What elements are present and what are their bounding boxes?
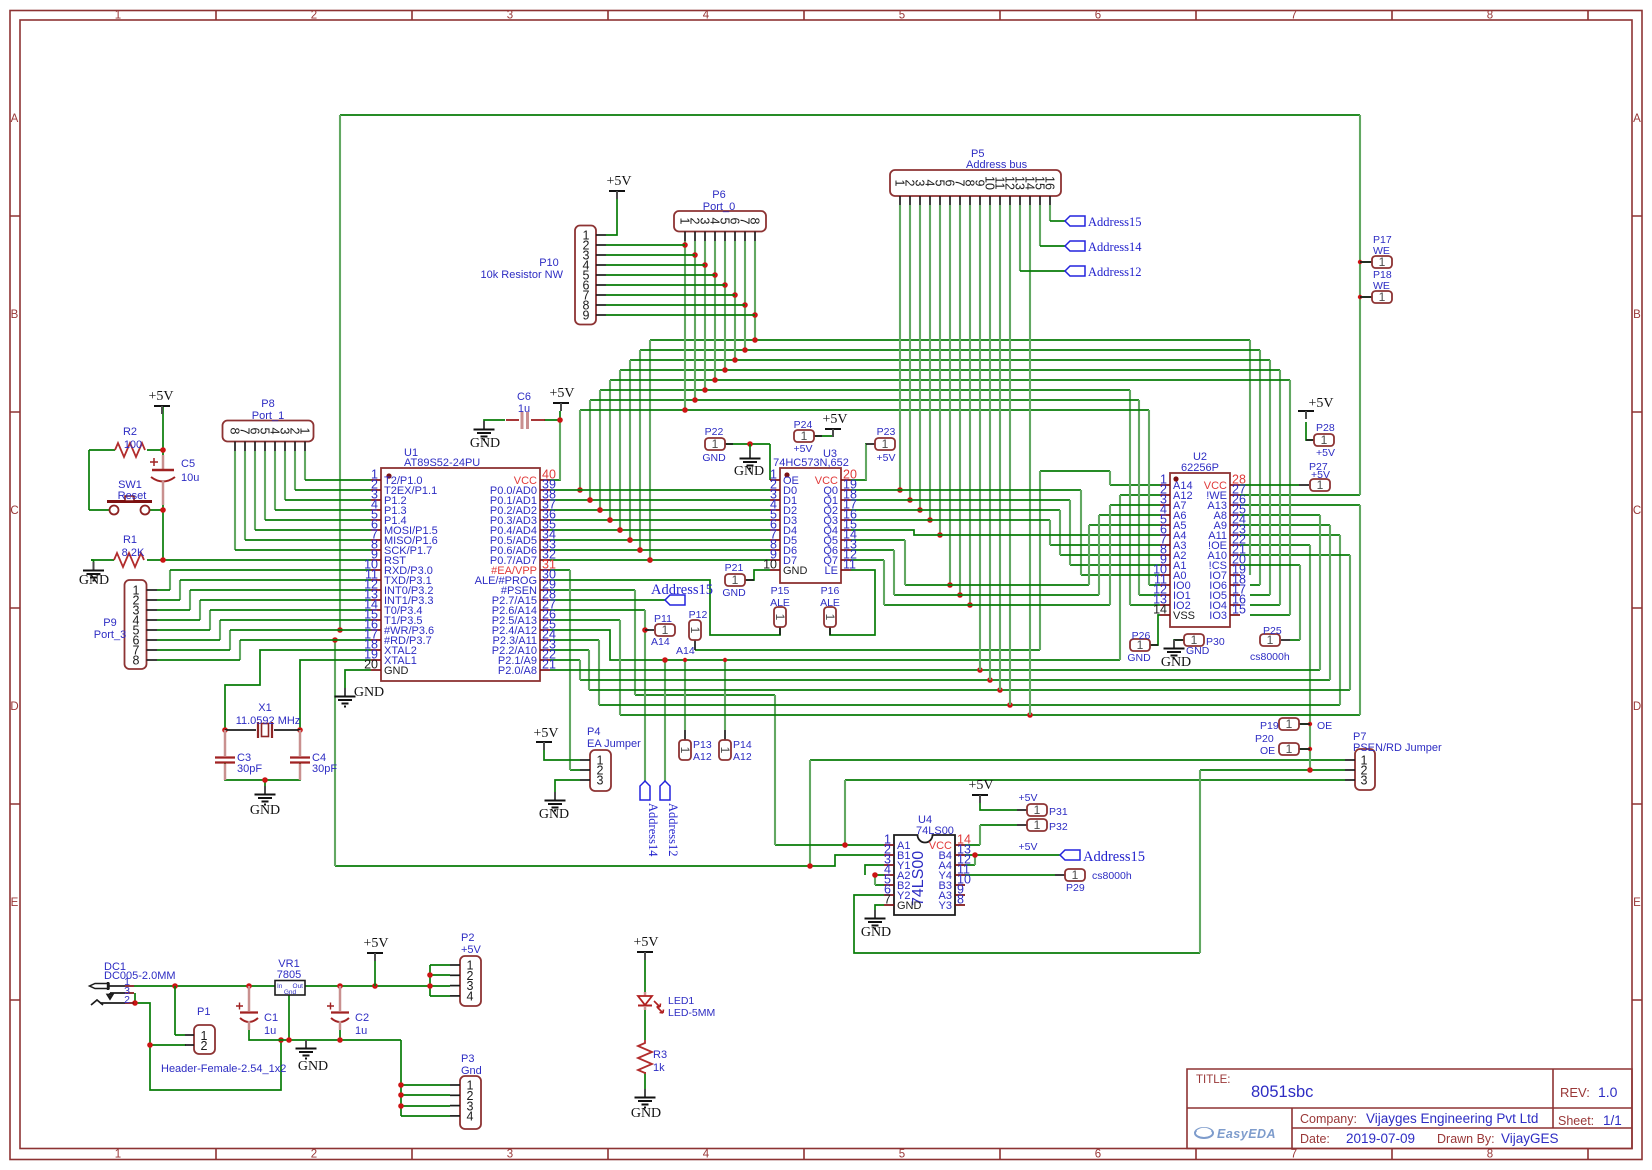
ground GND (P22) [749, 444, 751, 450]
svg-text:1: 1 [1286, 742, 1293, 756]
junction WE [337, 627, 343, 633]
wire U3 OE/P22 GND [725, 444, 770, 480]
connector P30 GND [1174, 633, 1225, 657]
connector P19 OE [1260, 717, 1332, 732]
svg-text:1/1: 1/1 [1603, 1113, 1622, 1128]
wire ground rail [249, 995, 401, 1040]
svg-text:GND: GND [897, 900, 922, 912]
svg-text:5: 5 [899, 10, 905, 22]
svg-text:P28: P28 [1316, 422, 1335, 434]
wire A9 net (U1 P2.1 / P5 pin10 / U2 A9) [550, 525, 1330, 680]
svg-text:4: 4 [467, 989, 474, 1003]
svg-text:1: 1 [115, 1149, 121, 1161]
connector P4 EA Jumper [580, 726, 641, 791]
svg-text:ALE: ALE [820, 597, 840, 609]
svg-text:Company:: Company: [1300, 1112, 1357, 1126]
svg-text:Y3: Y3 [939, 900, 952, 912]
svg-text:P23: P23 [877, 426, 896, 438]
svg-text:4: 4 [703, 10, 710, 22]
svg-text:GND: GND [250, 803, 280, 818]
svg-text:C1: C1 [264, 1012, 278, 1024]
wire LE net (U3 LE to P16) [830, 570, 875, 635]
svg-text:62256P: 62256P [1181, 462, 1219, 474]
svg-text:8051sbc: 8051sbc [1251, 1083, 1313, 1101]
connector P31 +5V [1017, 792, 1068, 818]
svg-text:E: E [11, 897, 19, 909]
svg-text:3: 3 [507, 10, 513, 22]
header P8 Port_1 [223, 398, 314, 451]
wire LED net [644, 960, 646, 1089]
svg-text:GND: GND [79, 573, 109, 588]
svg-text:8: 8 [1487, 10, 1493, 22]
svg-text:Address12: Address12 [666, 803, 680, 856]
connector P32 +5V [1017, 818, 1068, 853]
connector P7 PSEN/RD Jumper [1345, 731, 1442, 790]
svg-text:LE: LE [825, 565, 838, 577]
svg-text:1: 1 [1072, 868, 1079, 882]
svg-text:E: E [1633, 897, 1641, 909]
svg-text:Port_1: Port_1 [252, 410, 284, 422]
svg-text:8: 8 [957, 893, 964, 907]
svg-text:P9: P9 [103, 617, 116, 629]
wire A15 net (U1 P2.7 to Address15 flag) [550, 599, 665, 601]
header P6 Port_0 [674, 189, 766, 241]
svg-text:7805: 7805 [277, 969, 301, 981]
connector P25 cs8000h [1250, 625, 1290, 663]
wire AD3 net bus row [610, 380, 1290, 615]
wire AD0 net bus row [580, 410, 1160, 585]
svg-text:1.0: 1.0 [1598, 1084, 1618, 1100]
svg-text:P15: P15 [771, 585, 790, 597]
ground GND (P4) [554, 792, 556, 800]
wire crystal caps to GND [225, 763, 300, 786]
wire RST net (R1/R2/C5/SW1 to U1 RST) [89, 405, 371, 560]
DC jack DC1 DC005-2.0MM [90, 961, 176, 1006]
ground GND (P30) [1173, 640, 1175, 648]
svg-text:1: 1 [1034, 818, 1041, 832]
svg-text:P25: P25 [1263, 625, 1282, 637]
svg-text:+5V: +5V [1316, 447, 1335, 459]
net flag Address14 (P5) [1065, 241, 1085, 251]
svg-text:6: 6 [1095, 1149, 1101, 1161]
svg-text:1: 1 [718, 747, 732, 754]
wire OE net (U4 Y2 to P7 pin2 / P19 / P20 / U2 !OE) [854, 545, 1345, 953]
capacitor C3 [215, 730, 262, 780]
svg-text:P13: P13 [693, 739, 712, 751]
ground GND (rail) [305, 1040, 307, 1048]
wire P2 +5V symbol [374, 960, 376, 986]
svg-text:1: 1 [115, 10, 121, 22]
svg-text:14: 14 [1153, 603, 1167, 617]
svg-text:GND: GND [539, 807, 569, 822]
svg-text:Header-Female-2.54_1x2: Header-Female-2.54_1x2 [161, 1063, 286, 1075]
svg-text:P19: P19 [1260, 720, 1279, 732]
junction A13/P5 [1027, 712, 1033, 718]
wire AD2 net bus row [600, 390, 1160, 605]
svg-text:P16: P16 [821, 585, 840, 597]
ground GND (R1) [93, 562, 95, 570]
net flag Address14 (bottom) [640, 781, 650, 800]
svg-text:20: 20 [364, 658, 378, 672]
net flag Address15 (U4) [1060, 849, 1145, 865]
wire DC1 gnd loop / P1 pin2 [135, 993, 281, 1090]
wire P1 pin1 riser [175, 986, 185, 1035]
svg-text:+5V: +5V [1311, 469, 1330, 481]
net flag Address15 (P5) [1065, 216, 1085, 226]
wire P10 pullup rows to P6 verticals [606, 245, 755, 315]
svg-text:P26: P26 [1132, 630, 1151, 642]
svg-text:9: 9 [583, 309, 590, 323]
svg-text:Address12: Address12 [1088, 265, 1141, 279]
wire A8 net (U1 P2.0 / P5 pin9 / U2 A8) [550, 515, 1320, 670]
svg-text:C6: C6 [517, 391, 531, 403]
svg-text:Drawn By:: Drawn By: [1437, 1132, 1495, 1146]
svg-text:P11: P11 [654, 613, 672, 625]
ground GND (R3) [644, 1089, 646, 1097]
capacitor C2 [327, 986, 369, 1037]
wire A2 net [851, 510, 1160, 555]
svg-text:1: 1 [882, 437, 889, 451]
svg-text:C2: C2 [355, 1012, 369, 1024]
svg-text:P4: P4 [587, 726, 600, 738]
svg-text:GND: GND [384, 665, 409, 677]
connector P1 Header-Female [161, 1006, 286, 1075]
net flag Address12 (P5) [1065, 266, 1085, 276]
svg-text:+5V: +5V [968, 778, 993, 793]
svg-text:+5V: +5V [148, 389, 173, 404]
svg-text:2: 2 [311, 1149, 317, 1161]
wire AD rows U1 P0 to U3 D [550, 490, 770, 560]
wire P28 +5V [1306, 422, 1314, 440]
svg-text:A: A [1633, 113, 1641, 125]
svg-text:VijayGES: VijayGES [1501, 1131, 1559, 1146]
wire A11 net (U1 P2.3 / P5 pin12 / U2 A11) [550, 535, 1340, 705]
svg-text:1u: 1u [518, 403, 530, 415]
EasyEDA logo [1195, 1127, 1276, 1141]
svg-text:1u: 1u [264, 1025, 276, 1037]
connector P24 +5V [794, 419, 822, 455]
svg-text:Date:: Date: [1300, 1132, 1330, 1146]
svg-text:EA Jumper: EA Jumper [587, 738, 641, 750]
IC U4 74LS00 [884, 814, 971, 915]
svg-text:WE: WE [1373, 245, 1390, 257]
wire A12 net (U1 P2.4 / Address12 flag / P13 / P14 / U2 A12) [550, 495, 1160, 660]
svg-text:P12: P12 [689, 609, 708, 621]
svg-text:GND: GND [783, 565, 808, 577]
connector P12 A14 [676, 609, 707, 657]
svg-text:P29: P29 [1066, 882, 1085, 894]
wire XTAL1 to X1 [300, 660, 371, 730]
connector P26 GND [1127, 630, 1158, 664]
svg-text:A: A [11, 113, 19, 125]
svg-text:2: 2 [201, 1039, 208, 1053]
svg-text:P3: P3 [461, 1053, 474, 1065]
svg-text:16: 16 [1043, 176, 1057, 190]
wire P4 +5V [544, 750, 580, 760]
svg-text:Address14: Address14 [1088, 240, 1142, 254]
capacitor C4 [290, 730, 337, 780]
wire P4 pin3 GND [555, 780, 580, 792]
svg-text:2: 2 [124, 994, 130, 1006]
svg-text:GND: GND [734, 464, 764, 479]
header P3 Gnd [450, 1053, 482, 1129]
svg-text:OE: OE [1260, 745, 1275, 757]
wire P5 header verticals pins1-12,14 [899, 205, 901, 490]
svg-text:10: 10 [763, 558, 777, 572]
svg-text:REV:: REV: [1560, 1085, 1590, 1100]
wire RD net (U1 #RD to U4 B1 / P7 pin1) [335, 760, 1345, 866]
svg-text:21: 21 [542, 658, 556, 672]
capacitor C5 [150, 455, 199, 505]
svg-text:GND: GND [861, 925, 891, 940]
wire P9 to U1 port3 staircase [169, 570, 171, 590]
svg-text:IO3: IO3 [1209, 610, 1227, 622]
svg-text:GND: GND [631, 1106, 661, 1121]
connector P23 +5V [866, 426, 895, 464]
connector P15 ALE [770, 585, 790, 635]
junction AD rows staircase [587, 497, 593, 503]
svg-text:A12: A12 [733, 751, 752, 763]
connector P22 GND [702, 426, 733, 464]
wire P31 +5V [980, 803, 1017, 810]
wire U4 VCC to P32 [965, 825, 1017, 845]
svg-text:+5V: +5V [461, 944, 482, 956]
wire ALE net (U1 ALE to P15) [550, 580, 780, 635]
svg-text:1: 1 [688, 627, 702, 634]
svg-text:B: B [11, 309, 19, 321]
svg-text:1: 1 [1379, 255, 1386, 269]
svg-text:P31: P31 [1049, 806, 1068, 818]
svg-text:+5V: +5V [606, 174, 631, 189]
svg-text:1: 1 [1286, 717, 1293, 731]
connector P20 OE [1255, 733, 1310, 757]
svg-text:2019-07-09: 2019-07-09 [1346, 1131, 1415, 1146]
svg-text:+5V: +5V [822, 412, 847, 427]
switch SW1 Reset [107, 479, 152, 515]
wire A1 net [851, 500, 1160, 565]
wire A0 net (U3 Q0 row to U2 A0) [851, 490, 1160, 575]
wire A3 net [851, 520, 1160, 545]
svg-text:DC005-2.0MM: DC005-2.0MM [104, 970, 176, 982]
svg-text:30pF: 30pF [312, 763, 337, 775]
svg-text:P2.0/A8: P2.0/A8 [498, 665, 537, 677]
junction A14/P11 [642, 627, 648, 633]
junction PSEN/U4 A1 [842, 842, 848, 848]
ground GND (U4 pin7) [874, 910, 876, 918]
ground GND (U1 pin20) [344, 688, 346, 696]
svg-text:74HC573N,652: 74HC573N,652 [773, 457, 849, 469]
svg-text:+5V: +5V [877, 452, 896, 464]
connector P27 +5V [1299, 461, 1330, 492]
ground GND (crystal) [264, 786, 266, 794]
svg-text:30pF: 30pF [237, 763, 262, 775]
svg-text:Address15: Address15 [651, 582, 713, 598]
svg-text:LED-5MM: LED-5MM [668, 1007, 715, 1019]
svg-text:Address bus: Address bus [966, 159, 1028, 171]
wire P8 to U1 port1 staircase [304, 451, 306, 480]
wire AD1 net bus row [590, 400, 1160, 595]
svg-text:cs8000h: cs8000h [1250, 651, 1290, 663]
wire P10 pin1 to +5V [606, 197, 617, 235]
svg-text:GND: GND [1161, 655, 1191, 670]
svg-text:3: 3 [507, 1149, 513, 1161]
wire R1 to GND [91, 560, 94, 562]
wire P5 pin16 to Address15 flag [1049, 205, 1051, 221]
svg-text:1: 1 [298, 428, 312, 435]
resistor R3 [638, 1040, 667, 1074]
svg-text:P22: P22 [705, 426, 724, 438]
wire WE net (U1 #WR to P17/P18 to U2 !WE) [340, 115, 1372, 495]
svg-text:8: 8 [748, 218, 762, 225]
capacitor C1 [236, 986, 278, 1037]
svg-text:R1: R1 [123, 534, 137, 546]
svg-text:6: 6 [1095, 10, 1101, 22]
svg-text:D: D [10, 701, 18, 713]
wire A14 net (U1 P2.6 / P11 / Address14 flag / P12 / U2 A14) [550, 471, 1160, 650]
svg-text:10u: 10u [181, 472, 199, 484]
svg-text:P6: P6 [712, 189, 725, 201]
IC U2 62256P [1153, 451, 1246, 627]
wire A10 net (U1 P2.2 / P5 pin11 / U2 A10) [550, 555, 1350, 690]
wire U1 GND pin20 [345, 670, 371, 688]
svg-text:C: C [1633, 505, 1641, 517]
svg-text:Gnd: Gnd [284, 989, 297, 996]
svg-text:A14: A14 [651, 636, 670, 648]
svg-text:C: C [10, 505, 18, 517]
svg-text:1: 1 [712, 437, 719, 451]
connector P16 ALE [820, 585, 840, 635]
svg-text:PSEN/RD Jumper: PSEN/RD Jumper [1353, 742, 1442, 754]
svg-text:Port_0: Port_0 [703, 201, 735, 213]
wire U2 VCC to P27 [1240, 484, 1299, 486]
svg-text:1: 1 [773, 614, 787, 621]
wire EA net (U1 #EA to P4 pin2) [550, 570, 580, 770]
svg-text:7: 7 [1291, 1149, 1297, 1161]
svg-text:VSS: VSS [1173, 610, 1195, 622]
svg-text:P20: P20 [1255, 733, 1274, 745]
svg-text:5: 5 [899, 1149, 905, 1161]
svg-text:P14: P14 [733, 739, 752, 751]
wire P30 GND [1174, 640, 1184, 644]
IC U1 AT89S52-24PU [364, 447, 556, 681]
svg-text:OE: OE [1317, 720, 1332, 732]
svg-text:cs8000h: cs8000h [1092, 870, 1132, 882]
svg-text:+5V: +5V [1308, 396, 1333, 411]
junction P5 pins 1-5 on Q rows [897, 487, 903, 493]
svg-text:X1: X1 [258, 702, 271, 714]
svg-text:1: 1 [1379, 290, 1386, 304]
net flag Address12 (bottom) [660, 781, 670, 800]
junction RD [332, 637, 338, 643]
wire U4 Y1 to A2/B2 [865, 865, 884, 885]
svg-text:2: 2 [311, 10, 317, 22]
svg-text:P21: P21 [725, 562, 744, 574]
header P5 Address bus [890, 148, 1061, 205]
wire A4 net (Q4 jog) [851, 530, 1160, 535]
svg-text:+5V: +5V [549, 386, 574, 401]
wire U4 GND [875, 905, 884, 910]
svg-text:Sheet:: Sheet: [1558, 1114, 1594, 1128]
svg-text:74LS00: 74LS00 [916, 825, 954, 837]
IC U3 74HC573N,652 [763, 448, 857, 583]
svg-text:1k: 1k [653, 1062, 665, 1074]
wire P5 pin13 to Address12 flag [1019, 205, 1021, 271]
wire A5 net (Q5 to U2 A5) [851, 525, 1160, 585]
wire A7 net (Q7 to U2 A7) [851, 505, 1160, 605]
svg-text:P10: P10 [539, 257, 559, 269]
crystal X1 [225, 702, 300, 738]
svg-text:AT89S52-24PU: AT89S52-24PU [404, 457, 480, 469]
header P2 +5V [450, 932, 482, 1006]
svg-text:GND: GND [722, 587, 746, 599]
svg-text:ALE: ALE [770, 597, 790, 609]
wire P24 +5V [814, 429, 833, 436]
svg-text:R2: R2 [123, 426, 137, 438]
svg-text:8: 8 [133, 654, 140, 668]
svg-text:GND: GND [470, 436, 500, 451]
svg-text:+5V: +5V [633, 935, 658, 950]
ground GND (C6) [483, 421, 485, 429]
svg-text:Port_3: Port_3 [94, 629, 126, 641]
svg-text:A14: A14 [676, 645, 695, 657]
junction P5 pins 6-8 [947, 582, 953, 588]
wire P5 pin15 to Address14 flag [1039, 205, 1041, 246]
connector P13 A12 [678, 730, 712, 763]
svg-text:Gnd: Gnd [461, 1065, 482, 1077]
header P10 10k Resistor NW [480, 226, 606, 325]
svg-text:+5V: +5V [363, 936, 388, 951]
wire U3 GND to P21 [745, 570, 770, 580]
svg-text:D: D [1633, 701, 1641, 713]
connector P11 A14 [645, 613, 675, 648]
svg-text:10k Resistor NW: 10k Resistor NW [480, 269, 563, 281]
regulator VR1 7805 [275, 958, 305, 996]
svg-text:1u: 1u [355, 1025, 367, 1037]
svg-text:GND: GND [702, 452, 726, 464]
svg-text:Address15: Address15 [1088, 215, 1141, 229]
wire CS net (U2 !CS to P25) [1240, 565, 1300, 640]
connector P14 A12 [718, 730, 752, 763]
wire A6 net (Q6 to U2 A6) [851, 515, 1160, 595]
svg-text:1: 1 [732, 573, 739, 587]
wire AD6 net bus row [640, 350, 1260, 585]
svg-text:74LS00: 74LS00 [910, 851, 927, 906]
svg-text:In: In [277, 983, 283, 990]
header P9 Port_3 [94, 580, 157, 669]
connector P18 WE [1360, 269, 1392, 304]
wire power rail +V (DC1 to VR1 to P2) [134, 965, 450, 996]
svg-text:GND: GND [298, 1059, 328, 1074]
svg-text:11: 11 [843, 558, 856, 572]
wire AD7 net bus row [650, 340, 1250, 345]
capacitor C6 [506, 391, 545, 429]
svg-text:4: 4 [467, 1110, 474, 1124]
connector P21 GND [722, 562, 754, 599]
svg-text:3: 3 [1361, 774, 1368, 788]
wire U3 VCC to P23 [851, 444, 866, 480]
connector P29 cs8000h [1055, 868, 1132, 894]
wire AD4 net bus row [620, 370, 1280, 605]
junction OE [1307, 767, 1313, 773]
svg-text:+5V: +5V [1019, 841, 1038, 853]
svg-text:100: 100 [124, 439, 142, 451]
svg-text:1: 1 [823, 614, 837, 621]
svg-text:7: 7 [1291, 10, 1297, 22]
svg-text:8: 8 [1487, 1149, 1493, 1161]
svg-text:+5V: +5V [794, 443, 813, 455]
svg-text:Address15: Address15 [1083, 849, 1145, 865]
svg-text:P2: P2 [461, 932, 474, 944]
